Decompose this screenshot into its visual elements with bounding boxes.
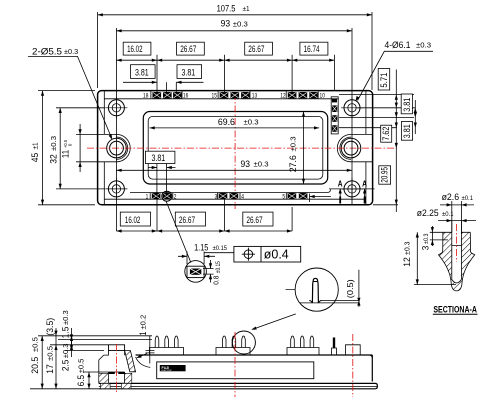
- case top face: [136, 355, 373, 382]
- svg-text:±0.3: ±0.3: [288, 136, 297, 151]
- svg-text:±0.1: ±0.1: [462, 195, 474, 202]
- bottom pads 5-6 small dim tick: [310, 194, 332, 203]
- left boss arcs: [117, 134, 131, 161]
- bottom pad row group1: [152, 193, 161, 199]
- FUJI label: [160, 365, 186, 371]
- dim 1.5: [71, 328, 73, 348]
- svg-text:32: 32: [49, 154, 59, 164]
- pins group1: [155, 336, 178, 347]
- svg-text:69.6: 69.6: [218, 117, 235, 127]
- boxed dim 16.02 bottom: [120, 212, 150, 226]
- pin section inner black: [190, 269, 201, 275]
- svg-text:ø0.4: ø0.4: [264, 248, 289, 262]
- svg-text:(0.5): (0.5): [345, 279, 355, 298]
- boss hatch left: [99, 373, 109, 383]
- svg-text:17: 17: [45, 364, 55, 374]
- svg-text:13: 13: [252, 92, 258, 99]
- svg-text:ELECTRIC: ELECTRIC: [162, 370, 173, 372]
- box 5.71: [378, 69, 390, 91]
- bottom terminal strip lines: [104, 189, 366, 199]
- pin outline and tip: [452, 221, 462, 283]
- funnel curve: [136, 357, 151, 367]
- svg-text:±0.5: ±0.5: [30, 337, 39, 352]
- boxed dim 26.67 bottom b: [243, 212, 273, 226]
- svg-text:3.81: 3.81: [152, 152, 166, 163]
- right mounting boss notch: [351, 134, 373, 161]
- svg-text:±0.2: ±0.2: [139, 315, 148, 330]
- boxed dim 26.67 top b: [245, 42, 273, 55]
- bore outline: [109, 372, 125, 383]
- svg-text:4: 4: [241, 194, 244, 201]
- single pin: [332, 348, 337, 355]
- pedestal group2: [216, 348, 250, 356]
- baseplate hatch right: [121, 383, 131, 388]
- bell top edges: [443, 231, 470, 233]
- boss hatch right: [125, 373, 132, 383]
- dim 45 line: [42, 91, 44, 205]
- pin section outer rect: [187, 266, 204, 277]
- box 3.81 right a: [401, 94, 412, 114]
- svg-text:3.81: 3.81: [401, 124, 412, 138]
- svg-text:3: 3: [419, 246, 430, 251]
- svg-text:±0.3: ±0.3: [423, 233, 430, 244]
- svg-text:±0.3: ±0.3: [61, 310, 70, 325]
- pedestal group3: [287, 348, 319, 356]
- screw hole bottom-left: [105, 178, 127, 200]
- dim 107.5 line: [98, 14, 372, 16]
- bottom dim line: [116, 230, 292, 232]
- svg-text:±0.15: ±0.15: [213, 245, 228, 252]
- svg-text:0.8: 0.8: [212, 276, 221, 285]
- screw hole top-left: [105, 97, 127, 119]
- svg-text:2.5: 2.5: [60, 360, 70, 372]
- red centerline vertical: [234, 93, 236, 209]
- svg-text:1: 1: [138, 332, 148, 336]
- inner window inner rect: [148, 116, 323, 179]
- svg-text:16.02: 16.02: [127, 43, 142, 54]
- pin mark circle: [232, 331, 255, 354]
- dim 20.5: [41, 336, 43, 389]
- svg-text:6.5: 6.5: [76, 375, 86, 387]
- svg-text:±0.5: ±0.5: [46, 346, 55, 361]
- screw hole bottom-right: [341, 178, 363, 200]
- svg-text:ø2.25: ø2.25: [417, 207, 439, 218]
- left mounting boss notch: [98, 134, 117, 161]
- ext lines 107.5: [97, 12, 99, 88]
- red centerline section: [456, 224, 458, 262]
- svg-text:(3.5): (3.5): [45, 318, 55, 336]
- detail circle: [295, 268, 338, 311]
- svg-text:±0.3: ±0.3: [402, 241, 411, 255]
- svg-text:±0.3: ±0.3: [64, 47, 78, 56]
- svg-text:2: 2: [174, 194, 177, 201]
- svg-text:±0.1: ±0.1: [442, 211, 454, 218]
- 4-o6.1 leader: [358, 51, 434, 100]
- svg-text:12: 12: [280, 92, 286, 99]
- svg-text:±0.3: ±0.3: [233, 19, 248, 28]
- svg-text:12: 12: [402, 257, 412, 267]
- dim 2.5: [71, 338, 73, 357]
- svg-text:3.81: 3.81: [135, 67, 149, 78]
- svg-text:26.67: 26.67: [179, 214, 195, 225]
- svg-text:1.5: 1.5: [60, 327, 70, 339]
- svg-text:10: 10: [320, 92, 326, 99]
- boxed dim 16.74 top: [300, 42, 328, 55]
- top pad row group2: [220, 92, 229, 98]
- svg-text:5.71: 5.71: [378, 73, 389, 88]
- right terminal strip: [331, 97, 338, 134]
- box 7.62: [381, 125, 392, 142]
- svg-text:3.81: 3.81: [182, 67, 196, 78]
- 3.81 pitch dim arrows: [123, 82, 204, 92]
- pin center drop lines: [157, 55, 334, 92]
- svg-text:26.67: 26.67: [248, 43, 264, 54]
- box 20.95: [379, 166, 391, 184]
- top pad row group1: [153, 92, 162, 98]
- pin shape: [312, 278, 318, 303]
- svg-text:2-Ø5.5: 2-Ø5.5: [32, 45, 62, 56]
- screw hole top-right: [341, 97, 363, 119]
- svg-text:11: 11: [61, 150, 71, 158]
- baseplate: [99, 383, 378, 388]
- boss right wall hatched: [125, 351, 136, 372]
- detail circle small: [185, 261, 207, 283]
- pedestal group1: [150, 348, 184, 356]
- svg-text:45: 45: [30, 153, 40, 163]
- svg-text:±1: ±1: [31, 142, 40, 149]
- leader from pad 2: [162, 191, 172, 201]
- dim 3: [430, 226, 448, 246]
- boxed dim 3.81 a: [131, 65, 156, 79]
- svg-text:3.81: 3.81: [401, 98, 412, 112]
- svg-text:±0.3: ±0.3: [49, 136, 58, 151]
- bottom pad row group3: [288, 193, 297, 199]
- bell outline: [439, 232, 475, 291]
- svg-text:7.62: 7.62: [380, 127, 391, 141]
- svg-text:±0.3: ±0.3: [61, 343, 70, 358]
- svg-text:15: 15: [212, 92, 218, 99]
- dim 12: [414, 232, 456, 284]
- svg-text:A: A: [338, 179, 343, 188]
- position symbol: [244, 250, 253, 259]
- red centerline boss: [116, 344, 118, 394]
- dim (3.5): [54, 331, 57, 336]
- top pad row group3: [288, 92, 297, 98]
- right boss arcs: [337, 134, 351, 161]
- svg-text:±0.15: ±0.15: [215, 261, 222, 273]
- svg-text:±0.3: ±0.3: [244, 118, 259, 127]
- svg-text:18: 18: [143, 92, 149, 99]
- label recess: [157, 362, 314, 379]
- svg-text:26.67: 26.67: [180, 43, 196, 54]
- svg-text:1: 1: [146, 194, 149, 201]
- right big hole 5.5: [341, 138, 361, 158]
- bottom pad separators: [150, 193, 286, 199]
- dim 11 line: [79, 124, 81, 172]
- drop lines: [157, 199, 292, 231]
- svg-text:20.5: 20.5: [30, 357, 40, 374]
- right dim line x415.5: [414, 100, 416, 134]
- pins group3: [291, 336, 314, 347]
- ext lines left: [38, 91, 105, 205]
- dim 69.6: [150, 127, 320, 129]
- svg-text:1.15: 1.15: [194, 241, 208, 252]
- pin base line: [300, 300, 360, 303]
- red centerline horizontal: [87, 147, 397, 149]
- svg-text:93: 93: [241, 159, 251, 169]
- svg-text:20.95: 20.95: [379, 167, 390, 183]
- dim 32 line: [59, 108, 61, 189]
- right ext lines: [339, 95, 415, 205]
- dim (0.5): [358, 270, 360, 307]
- long centerlines through screw holes: [115, 28, 117, 231]
- dim 27.6: [303, 112, 305, 185]
- svg-text:±0.3: ±0.3: [254, 160, 269, 169]
- top pin dim line: [116, 59, 334, 61]
- dim 6.5: [88, 372, 90, 389]
- red centerline right: [352, 334, 354, 397]
- red centerline middle: [234, 332, 236, 397]
- svg-text:27.6: 27.6: [288, 155, 298, 172]
- boxed dim 16.02 top: [123, 42, 151, 55]
- right block: [346, 345, 361, 355]
- top terminal strip line: [104, 98, 338, 100]
- svg-text:26.67: 26.67: [246, 214, 262, 225]
- box 3.81 right b: [401, 122, 412, 141]
- svg-text:A: A: [362, 179, 367, 188]
- svg-text:±0.5: ±0.5: [76, 359, 85, 374]
- svg-text:16: 16: [183, 92, 189, 99]
- svg-text:±0.3: ±0.3: [416, 41, 431, 50]
- module inner case outline: [104, 91, 366, 205]
- baseplate hatch left: [101, 383, 110, 388]
- right dim line x396: [395, 70, 397, 213]
- boss section collar: [109, 345, 125, 351]
- svg-text:SECTIONA-A: SECTIONA-A: [433, 304, 477, 314]
- dim 93 line top: [116, 30, 352, 32]
- svg-text:4-Ø6.1: 4-Ø6.1: [385, 39, 411, 50]
- boxed dim 3.81 bottom: [145, 151, 175, 163]
- boxed dim 3.81 b: [177, 65, 202, 79]
- leader arrow 1 dim: [138, 354, 148, 358]
- svg-text:ø2.6: ø2.6: [442, 191, 460, 202]
- bottom pad row group2: [219, 193, 228, 199]
- dim 17: [55, 345, 57, 389]
- svg-text:93: 93: [221, 19, 231, 29]
- top pad separators: [151, 91, 318, 98]
- 3.81 bottom drop lines: [149, 164, 176, 197]
- svg-text:107.5: 107.5: [217, 3, 236, 13]
- 2-o5.5 leader: [28, 56, 112, 138]
- dim 93 inner: [116, 169, 352, 171]
- svg-text:±1: ±1: [243, 4, 250, 13]
- boxed dim 26.67 top a: [177, 42, 205, 55]
- bell hatched body: [439, 232, 475, 291]
- left big hole 5.5: [107, 138, 127, 158]
- boxed dim 26.67 bottom a: [175, 212, 205, 226]
- svg-text:5: 5: [282, 194, 285, 201]
- module body outline: [98, 91, 373, 205]
- boss section body outline: [99, 351, 125, 384]
- ext lines: [30, 336, 152, 389]
- inner window outer rect: [143, 112, 327, 185]
- pins group2: [222, 336, 245, 347]
- svg-text:16.74: 16.74: [304, 43, 320, 54]
- leader to side view: [253, 314, 296, 329]
- svg-text:16.02: 16.02: [125, 214, 140, 225]
